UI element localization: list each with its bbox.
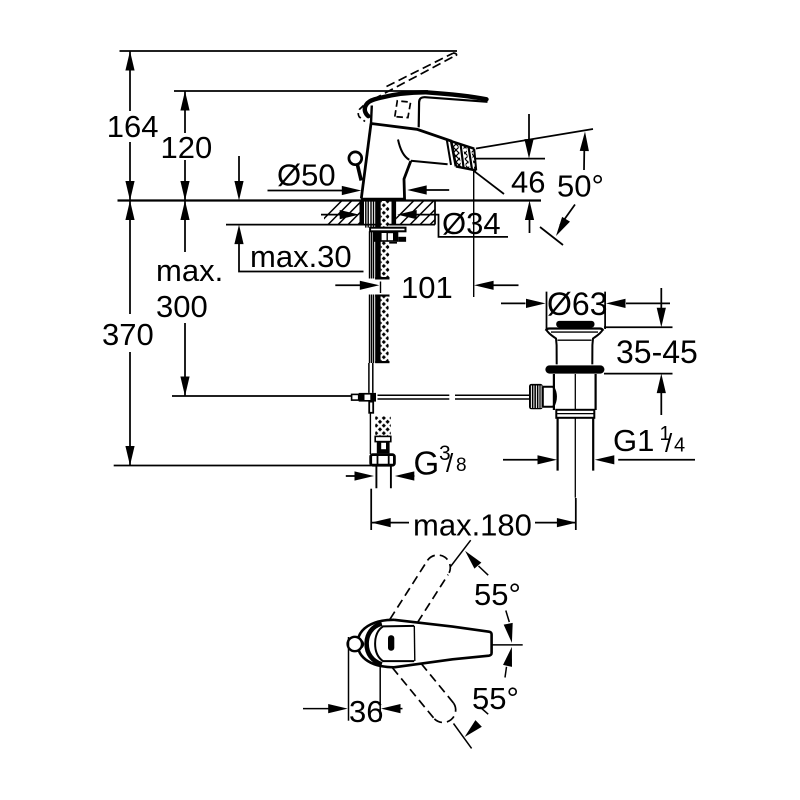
pop-up knob stem <box>357 164 361 180</box>
upper 55 arrow at extension <box>462 548 482 569</box>
hose nipple below fitting <box>369 402 373 413</box>
max.30 lower arrow shaft + shelf <box>239 244 364 272</box>
top reference line (handle tip level) <box>120 50 458 52</box>
pop-up rod fitting block <box>359 393 376 402</box>
50deg arrow up <box>580 131 590 151</box>
max.30 arrow down <box>234 181 243 201</box>
lower stud crosshatch <box>381 297 389 362</box>
G3/8 left arrow shaft <box>346 475 356 477</box>
O50 right arrow <box>407 185 427 194</box>
arrow 164 bottom <box>125 181 134 201</box>
G3/8 arrow left <box>395 471 415 480</box>
lower 55 extension line <box>454 724 472 749</box>
raised lever dashed lower line <box>373 55 456 99</box>
slab bottom line <box>226 224 435 226</box>
svg-text:max.180: max.180 <box>413 508 532 543</box>
drain flange top <box>546 329 603 331</box>
36 left witness <box>348 637 350 721</box>
threaded stud black strip upper <box>375 201 381 279</box>
O63 arrow right <box>526 299 546 308</box>
spout underside <box>411 161 448 165</box>
aerator outlet face <box>474 149 476 171</box>
svg-text:120: 120 <box>161 130 213 165</box>
36 arrow right <box>328 704 348 713</box>
raised lever dashed upper line <box>387 53 454 86</box>
35-45 witness bottom <box>604 373 673 375</box>
46 arrow down <box>524 139 533 159</box>
lever underside and neck <box>419 97 488 127</box>
svg-text:max.: max. <box>156 253 223 288</box>
lower stud bottom cap <box>375 361 389 363</box>
lower 55 arc line from centerline arrow <box>505 667 507 678</box>
shank left flange bar (in slab) <box>360 201 365 225</box>
36 right arrow shaft <box>400 708 403 710</box>
lower 55 arrow at centerline <box>503 646 516 667</box>
lever blade top curve with nose hook <box>365 92 487 116</box>
50deg lower tick line <box>540 227 563 245</box>
knurl ridge highlights <box>531 386 541 409</box>
35-45 upper arrow shaft <box>660 288 662 308</box>
svg-text:101: 101 <box>401 270 453 305</box>
svg-text:370: 370 <box>102 317 154 352</box>
36 arrow left <box>381 704 401 713</box>
hatch lines left of faucet hole <box>318 201 382 225</box>
drain joint band inner line <box>556 413 594 415</box>
fitting white window <box>365 395 371 400</box>
O63 arrow left <box>606 299 626 308</box>
O34 arrow left <box>340 210 360 219</box>
G1 1/4 arrow left <box>595 455 615 464</box>
slab right end edge <box>434 201 436 225</box>
aerator band gap 1 <box>461 144 464 169</box>
G3/8 hex nut <box>371 455 395 466</box>
svg-text:max.30: max.30 <box>250 239 352 274</box>
threaded stud crosshatch upper <box>381 201 389 279</box>
46 arrow up <box>525 201 534 221</box>
lower 55 arc arrow shaft <box>480 707 488 714</box>
max.30 arrow up <box>234 225 243 245</box>
svg-text:36: 36 <box>349 694 383 729</box>
svg-text:35-45: 35-45 <box>616 334 698 370</box>
G3/8 pipe stub <box>376 465 391 488</box>
handle centerline right <box>492 644 523 646</box>
101 arrow left <box>474 281 494 290</box>
50deg lower arc arrow shaft <box>560 205 575 226</box>
svg-text:55°: 55° <box>472 681 519 716</box>
370 bottom reference line <box>114 465 371 467</box>
O34 left arrow shaft <box>321 214 340 216</box>
dashed lever down: right edge <box>421 664 453 704</box>
svg-text:8: 8 <box>456 455 467 476</box>
nut bottom step <box>389 242 397 244</box>
120 reference line (lever level) <box>174 90 428 92</box>
blade inner outline <box>375 626 414 661</box>
dashed handle rotated up 55deg <box>390 555 450 622</box>
faucet body left edge <box>361 124 371 199</box>
46 lower arrow shaft <box>529 220 531 233</box>
O63 left arrow shaft <box>501 302 526 304</box>
svg-text:4: 4 <box>674 435 685 457</box>
svg-text:Ø63: Ø63 <box>547 286 607 322</box>
36 left arrow shaft <box>303 708 329 710</box>
pop-up rod left tab <box>352 394 359 400</box>
handle top-view screw circle <box>348 637 362 651</box>
svg-text:164: 164 <box>107 109 159 144</box>
G1 1/4 left shaft <box>503 459 538 461</box>
O34 arrow right <box>397 210 417 219</box>
dimension line x=185 for 120 and max.300 <box>184 91 186 396</box>
aerator knurled surface <box>451 141 476 170</box>
36 right witness <box>379 667 381 721</box>
aerator band gap 2 <box>469 147 473 170</box>
upper 55 arc line to centerline arrow <box>506 611 510 623</box>
max180 left witness <box>370 489 372 530</box>
max.300 bottom reference line (hose level) <box>172 395 352 397</box>
dashed lever up: left edge <box>390 560 428 619</box>
dashed lever down: left edge <box>392 668 434 719</box>
compression block window <box>381 443 386 449</box>
arrow 370 top <box>125 201 134 221</box>
arrow max300 bottom <box>180 377 189 397</box>
max180 right witness <box>575 498 577 530</box>
stud bottom cap upper segment <box>375 277 389 280</box>
handle top-view escutcheon cap <box>358 620 394 668</box>
raised lever dashed tip arc <box>453 53 457 56</box>
35-45 witness top <box>604 326 673 328</box>
aerator band line 3 <box>469 147 473 170</box>
aerator / mousseur <box>447 139 477 171</box>
mounting nut body <box>374 231 398 242</box>
101 arrow right <box>360 281 380 290</box>
supply hose tube lines (slab part) <box>366 201 374 231</box>
svg-text:Ø50: Ø50 <box>277 158 336 193</box>
35-45 lower arrow shaft <box>660 393 662 415</box>
faucet body foot line <box>361 198 405 201</box>
max180 arrow right <box>557 518 577 527</box>
O63 witness lines <box>547 292 606 329</box>
braided hose crosshatch <box>375 416 391 436</box>
46 upper arrow shaft <box>528 114 530 140</box>
50deg upper arc arrow shaft <box>583 150 585 170</box>
O34 witness vertical line <box>473 171 475 297</box>
hose compression block <box>377 442 390 450</box>
G3/8 arrow right <box>355 471 375 480</box>
max180 dim line left part <box>371 522 409 524</box>
dashed handle rotated down 55deg <box>392 664 455 723</box>
dashed lever up: tip cap <box>428 555 451 575</box>
max.30 upper arrow shaft <box>238 156 240 181</box>
lower 55 arrow at extension <box>461 720 481 740</box>
svg-text:/: / <box>665 428 673 458</box>
O50 underline / left arrow shaft <box>268 190 343 192</box>
svg-text:Ø34: Ø34 <box>442 206 501 241</box>
dimension line x=130 for 164 and 370 <box>129 51 131 466</box>
50deg arrow down-left <box>552 217 570 238</box>
upper 55 arc arrow shaft <box>479 566 489 575</box>
thin hose line to hex nut <box>369 413 371 454</box>
blade inner right edge <box>413 626 416 661</box>
pop-up knob ball <box>349 152 362 165</box>
46 witness line <box>474 158 545 160</box>
101 left arrow shaft <box>335 284 360 286</box>
svg-text:G1: G1 <box>613 423 654 458</box>
pop-up linkage rod <box>378 395 530 399</box>
O34 right arrow shaft + step + underline <box>416 215 508 237</box>
G3/8 right arrow shaft <box>414 475 415 477</box>
arrow 164 top <box>125 51 134 71</box>
dashed lever down: tip cap <box>434 703 455 722</box>
lower hose tube lines <box>370 295 374 364</box>
O50 left arrow <box>342 186 362 195</box>
G1 1/4 right shaft <box>618 459 695 461</box>
svg-text:/: / <box>446 448 454 478</box>
max180 dim line right part <box>535 522 576 524</box>
drain tailpipe <box>558 418 594 471</box>
svg-text:55°: 55° <box>474 577 521 612</box>
screw circle tab <box>362 641 363 647</box>
aerator band line 2 <box>461 144 464 169</box>
drain flange inner line 1 <box>551 331 598 333</box>
max180 arrow left <box>371 518 391 527</box>
aerator collar line <box>447 139 451 165</box>
drain centerline <box>574 374 576 498</box>
upper 55 arrow at centerline <box>504 623 517 644</box>
dashed nose of raised lever <box>358 106 365 122</box>
drain flange left side and neck <box>546 330 556 365</box>
break centerline <box>380 282 382 294</box>
faucet shoulder and spout arm top edge <box>371 124 452 142</box>
drain body walls <box>554 374 596 410</box>
arrow 120 top <box>180 91 189 111</box>
dashed lever up: right edge <box>418 575 449 623</box>
spray axis line <box>473 171 504 194</box>
arrow 370 bottom <box>125 446 134 466</box>
dashed cartridge square <box>395 101 411 118</box>
O50 right arrow shaft <box>426 189 449 191</box>
rod knurled knob <box>529 384 543 409</box>
drain flange right side and neck <box>592 330 602 365</box>
hose ferrule band <box>375 436 391 441</box>
G1 1/4 arrow right <box>538 455 558 464</box>
aerator bottom edge <box>456 166 476 170</box>
faucet body right edge <box>404 161 411 201</box>
arrow 120 bottom <box>180 181 189 201</box>
drain rubber seal <box>545 365 604 373</box>
head front edge to body joint <box>370 106 373 124</box>
svg-text:46: 46 <box>511 165 545 200</box>
hatch lines right of faucet hole <box>390 201 454 225</box>
arrow max300 top <box>180 201 189 221</box>
35-45 arrow up <box>657 374 666 394</box>
drain knob shadow band <box>559 325 591 327</box>
101 right arrow shaft <box>494 284 519 286</box>
drain joint band <box>556 410 594 418</box>
hex nut facet lines <box>378 456 389 465</box>
countertop line <box>118 199 542 201</box>
nut white window 2 <box>388 233 393 240</box>
blade hole <box>388 635 394 651</box>
rod link to drain <box>543 386 556 407</box>
drain flange inner line 2 <box>558 339 592 341</box>
svg-text:G: G <box>414 445 440 482</box>
handle top-view blade <box>394 620 492 668</box>
50deg upper reference line <box>476 129 593 149</box>
washer plate <box>370 228 405 232</box>
spout inner curve <box>398 140 409 160</box>
drain lift knob <box>556 321 594 328</box>
O63 right arrow shaft <box>626 302 670 304</box>
nut right ledge <box>398 237 406 242</box>
shank right flange bar (in slab) <box>392 201 397 225</box>
svg-text:50°: 50° <box>557 169 604 204</box>
35-45 arrow down <box>657 308 666 328</box>
upper 55 extension line <box>451 540 471 566</box>
hose tube lines below nut <box>370 231 374 278</box>
lower stud black strip <box>375 295 380 364</box>
hose-only tube lines <box>369 363 373 393</box>
aerator band line 1 <box>451 141 456 166</box>
lower stud segment top cap <box>375 295 389 297</box>
svg-text:300: 300 <box>156 289 208 324</box>
blade inner ring (thick C) <box>367 624 382 665</box>
aerator top edge <box>451 141 474 149</box>
hose end band <box>377 450 390 453</box>
nut white window 1 <box>382 233 387 240</box>
